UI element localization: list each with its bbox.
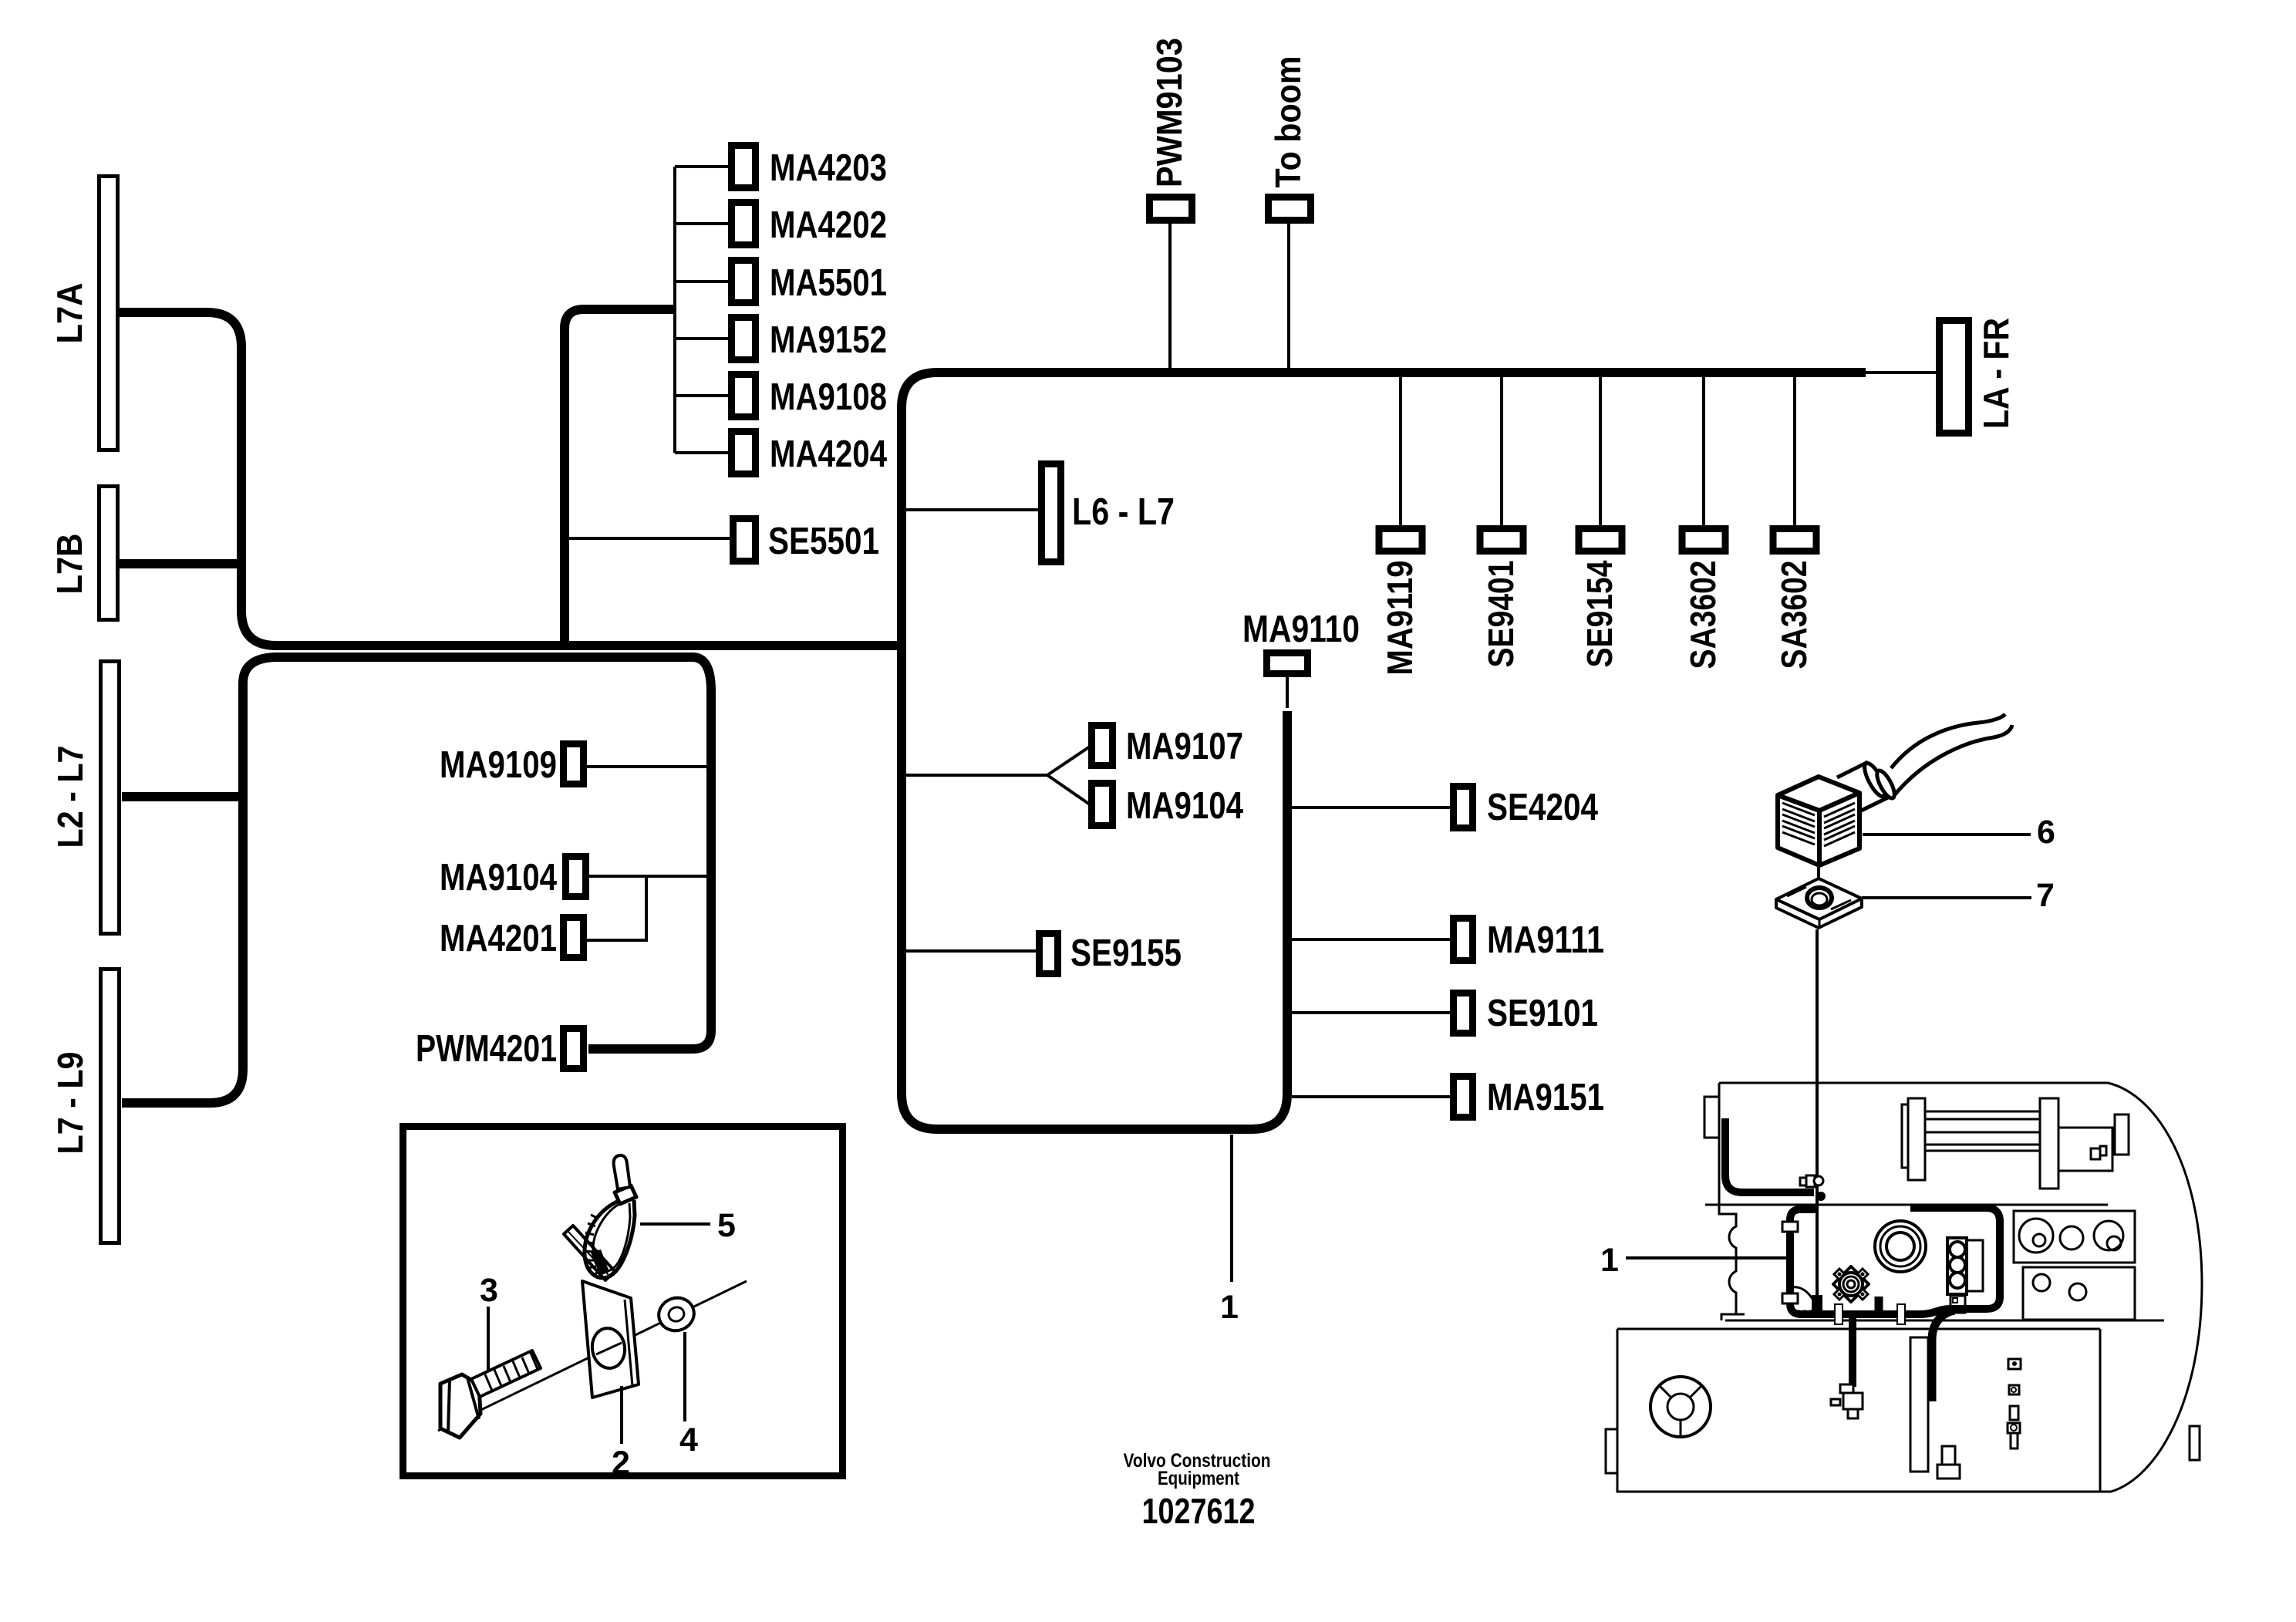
washer item 4 <box>654 1293 699 1335</box>
svg-text:2: 2 <box>612 1445 630 1482</box>
connector MA9119 <box>1379 529 1422 551</box>
leader item 4 <box>683 1332 686 1421</box>
svg-text:1: 1 <box>1220 1289 1239 1326</box>
svg-text:MA9108: MA9108 <box>770 376 887 418</box>
connector MA9110 <box>1267 653 1308 674</box>
connector SE9154 <box>1579 529 1622 551</box>
connector To boom <box>1269 197 1311 221</box>
wire MA9151 link <box>1292 1095 1450 1098</box>
svg-text:6: 6 <box>2037 814 2055 851</box>
wire LA-FR link <box>1866 371 1936 374</box>
svg-text:SA3602: SA3602 <box>1774 561 1814 669</box>
svg-text:MA4203: MA4203 <box>770 147 887 189</box>
connector MA9111 <box>1454 919 1473 961</box>
wire PWM9103 stub <box>1168 224 1172 369</box>
wire harness L2-L7/L7-L9 branch to PWM4201 trunk <box>122 657 711 1103</box>
wire L7B stub <box>120 559 241 568</box>
svg-text:MA9152: MA9152 <box>770 319 887 361</box>
svg-text:SE4204: SE4204 <box>1487 787 1598 828</box>
machine harness main loop <box>1790 1208 2000 1314</box>
svg-text:SA3602: SA3602 <box>1683 561 1723 669</box>
machine harness branch down right <box>1932 1310 1954 1401</box>
svg-text:MA9111: MA9111 <box>1487 919 1604 961</box>
machine switch column <box>2008 1359 2021 1448</box>
machine control panel upper <box>2014 1211 2135 1263</box>
svg-text:7: 7 <box>2036 877 2055 914</box>
leader item 5 <box>640 1222 710 1226</box>
wire harness branch to connector bank <box>565 309 675 646</box>
wire SE9401 stub <box>1500 377 1503 525</box>
wire SA3602 stub 1 <box>1702 377 1705 525</box>
wire stub MA4203 <box>675 165 728 168</box>
svg-text:L7 - L9: L7 - L9 <box>50 1052 90 1155</box>
wire MA9110 link <box>1286 677 1289 708</box>
connector MA9104 <box>566 857 586 897</box>
svg-text:PWM9103: PWM9103 <box>1149 38 1189 187</box>
svg-text:SE9101: SE9101 <box>1487 993 1598 1034</box>
connector bar L7-L9 <box>101 969 120 1243</box>
svg-text:SE5501: SE5501 <box>768 521 879 562</box>
wire MA4201 link <box>587 876 646 940</box>
svg-text:MA4204: MA4204 <box>770 433 887 475</box>
connector MA9107 <box>1092 726 1113 766</box>
connector bar L2-L7 <box>101 662 120 934</box>
machine harness branch to valve <box>1849 1314 1856 1387</box>
wire MA9109 link <box>587 765 706 768</box>
svg-text:L7A: L7A <box>49 283 89 344</box>
connector SE9101 <box>1454 993 1473 1034</box>
svg-text:MA9110: MA9110 <box>1242 609 1360 650</box>
connector SA3602 second <box>1773 529 1816 551</box>
svg-text:3: 3 <box>480 1272 498 1309</box>
machine body outline <box>1606 1083 2202 1492</box>
wire main harness trunk and central loop <box>902 373 1866 1129</box>
connector PWM9103 <box>1150 197 1192 221</box>
connector PWM4201 <box>564 1029 584 1069</box>
connector SE5501 <box>733 519 756 561</box>
svg-text:MA4202: MA4202 <box>770 204 887 246</box>
wire SE9101 link <box>1292 1011 1450 1014</box>
connector SE9155 <box>1040 934 1058 974</box>
wire bank bus <box>673 167 676 453</box>
svg-text:PWM4201: PWM4201 <box>416 1028 557 1070</box>
wire To boom stub <box>1287 224 1290 369</box>
svg-text:1027612: 1027612 <box>1142 1491 1256 1531</box>
connector MA9108 <box>732 375 756 417</box>
bracket item 2 <box>564 1226 639 1398</box>
machine lower compartment details <box>1910 1337 2200 1479</box>
svg-text:MA9107: MA9107 <box>1126 726 1243 767</box>
svg-text:MA9104: MA9104 <box>1126 785 1243 827</box>
svg-text:MA5501: MA5501 <box>770 262 887 304</box>
axis line washer to machine <box>1816 929 1819 1298</box>
wire L6-L7 link <box>906 508 1038 511</box>
machine valve cluster <box>1831 1384 1863 1418</box>
connector MA4203 <box>732 146 756 188</box>
machine leader-1 connector <box>1789 1287 1822 1311</box>
bolt item 3 <box>440 1351 541 1438</box>
machine relay block <box>1947 1238 1983 1313</box>
wire SE4204 link <box>1292 806 1450 809</box>
connector bar L7A <box>99 177 118 450</box>
machine grease nipple <box>1800 1175 1823 1187</box>
svg-text:L6 - L7: L6 - L7 <box>1072 491 1175 533</box>
leader item 1 harness <box>1230 1135 1233 1282</box>
svg-text:MA9119: MA9119 <box>1380 561 1420 676</box>
svg-text:LA - FR: LA - FR <box>1976 318 2016 429</box>
wire SA3602 stub 2 <box>1793 377 1796 525</box>
detail box frame <box>403 1127 843 1476</box>
machine harness stub up <box>1875 1297 1883 1314</box>
wire harness L7A/L7B branch to main trunk <box>120 312 902 646</box>
svg-text:L7B: L7B <box>49 534 89 595</box>
leader item 1 machine <box>1626 1256 1787 1259</box>
machine harness clamps <box>1782 1222 1905 1324</box>
svg-text:To boom: To boom <box>1268 56 1308 188</box>
wire stub MA4204 <box>675 451 728 454</box>
machine hydraulic cylinder <box>1902 1098 2129 1189</box>
machine flange with bolt ears <box>1833 1266 1869 1302</box>
connector SE4204 <box>1454 787 1473 828</box>
wire stub MA4202 <box>675 222 728 225</box>
connector MA9104 lower <box>1092 784 1113 826</box>
connector bar L7B <box>99 487 118 620</box>
svg-text:MA9109: MA9109 <box>440 744 557 786</box>
svg-text:SE9401: SE9401 <box>1481 561 1521 668</box>
machine control panel lower <box>2023 1267 2135 1320</box>
svg-text:MA9151: MA9151 <box>1487 1077 1604 1118</box>
wire MA9104 link <box>588 875 706 878</box>
wire MA9119 stub <box>1399 377 1402 525</box>
leader item 3 <box>487 1307 490 1372</box>
connector LA-FR <box>1940 321 1969 433</box>
svg-text:Equipment: Equipment <box>1158 1468 1240 1489</box>
connector MA9152 <box>732 318 756 360</box>
machine harness top left <box>1725 1118 1814 1192</box>
machine grommet rings <box>1875 1221 1926 1272</box>
svg-text:SE9154: SE9154 <box>1580 560 1620 667</box>
wire stub MA9108 <box>675 394 728 397</box>
wire L2-L7 stub <box>122 792 243 801</box>
wire SE9154 stub <box>1599 377 1602 525</box>
axis line cube to washer <box>1817 867 1820 889</box>
connector SA3602 first <box>1682 529 1725 551</box>
wire SE5501 link <box>568 537 730 540</box>
svg-text:SE9155: SE9155 <box>1070 932 1182 974</box>
connector MA9151 <box>1454 1077 1473 1118</box>
svg-text:1: 1 <box>1600 1242 1619 1279</box>
cable tie item 5 <box>585 1155 636 1278</box>
cable of item 6 <box>1891 714 2012 794</box>
assembly axis line <box>438 1281 747 1431</box>
svg-text:L2 - L7: L2 - L7 <box>50 746 90 848</box>
machine steering wheel <box>1650 1377 1711 1437</box>
connector MA4201 <box>564 918 584 958</box>
wire MA9111 link <box>1292 938 1450 941</box>
svg-text:5: 5 <box>717 1207 736 1244</box>
wire MA9107/MA9104 fork <box>906 747 1090 804</box>
machine wire junction dot <box>1816 1192 1826 1201</box>
wire SE9155 link <box>906 949 1036 953</box>
wire stub MA9152 <box>675 337 728 340</box>
connector MA4202 <box>732 203 756 245</box>
solenoid connector item 6 <box>1778 760 1898 865</box>
leader item 6 <box>1863 833 2031 836</box>
washer item 7 <box>1776 878 1862 928</box>
connector MA4204 <box>732 432 756 474</box>
connector MA9109 <box>564 744 584 784</box>
leader item 2 <box>620 1386 623 1444</box>
connector SE9401 <box>1480 529 1523 551</box>
leader item 7 <box>1862 896 2031 899</box>
svg-text:4: 4 <box>679 1421 698 1458</box>
svg-text:MA4201: MA4201 <box>440 918 557 959</box>
connector L6-L7 <box>1042 464 1061 562</box>
svg-text:MA9104: MA9104 <box>440 857 557 899</box>
wire stub MA5501 <box>675 280 728 283</box>
connector MA5501 <box>732 261 756 303</box>
